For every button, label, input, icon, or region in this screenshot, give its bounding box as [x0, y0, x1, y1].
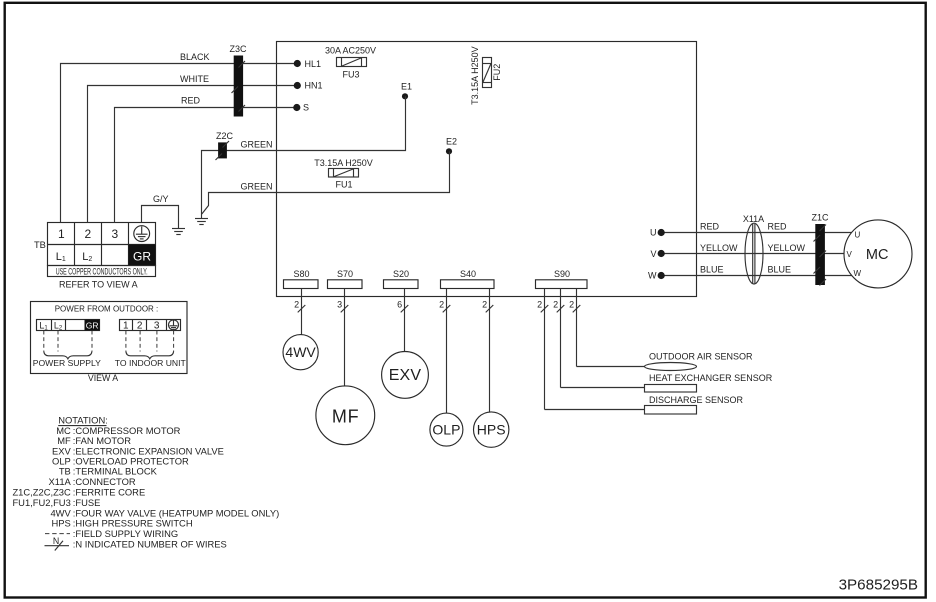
svg-text:Z1C,Z2C,Z3C: Z1C,Z2C,Z3C: [12, 486, 71, 497]
svg-text:6: 6: [397, 300, 402, 310]
svg-text:E1: E1: [401, 82, 412, 92]
svg-text::TERMINAL BLOCK: :TERMINAL BLOCK: [73, 466, 158, 477]
svg-text:2: 2: [439, 300, 444, 310]
svg-text:V: V: [650, 249, 656, 259]
svg-text:2: 2: [137, 321, 143, 332]
svg-text:GR: GR: [86, 320, 99, 330]
svg-text:S20: S20: [393, 269, 409, 279]
svg-text:2: 2: [84, 227, 91, 241]
svg-text:OLP: OLP: [432, 421, 460, 437]
svg-text:POWER SUPPLY: POWER SUPPLY: [33, 358, 101, 368]
svg-text:USE COPPER CONDUCTORS ONLY.: USE COPPER CONDUCTORS ONLY.: [56, 267, 148, 277]
svg-text:WHITE: WHITE: [180, 74, 209, 84]
svg-text:3: 3: [111, 227, 118, 241]
svg-text:MC: MC: [866, 247, 889, 263]
svg-text:3: 3: [154, 321, 160, 332]
svg-text:TB: TB: [34, 240, 46, 250]
svg-text:T3.15A H250V: T3.15A H250V: [470, 46, 480, 105]
svg-text:RED: RED: [768, 222, 788, 232]
svg-text:3: 3: [337, 300, 342, 310]
svg-text:2: 2: [482, 300, 487, 310]
svg-text:W: W: [648, 271, 657, 281]
svg-text:YELLOW: YELLOW: [700, 243, 738, 253]
svg-text:Z2C: Z2C: [216, 131, 234, 141]
svg-text:REFER TO VIEW A: REFER TO VIEW A: [59, 280, 138, 290]
svg-text:BLUE: BLUE: [768, 265, 792, 275]
svg-text:FU2: FU2: [492, 64, 502, 81]
svg-text:3P685295B: 3P685295B: [839, 577, 918, 594]
svg-text:G/Y: G/Y: [153, 194, 169, 204]
svg-text:GREEN: GREEN: [241, 139, 273, 149]
svg-text::FAN MOTOR: :FAN MOTOR: [73, 435, 131, 446]
svg-text:Z3C: Z3C: [229, 44, 247, 54]
svg-text:U: U: [855, 231, 861, 240]
svg-text:30A AC250V: 30A AC250V: [325, 45, 376, 55]
svg-text:MF: MF: [332, 406, 360, 426]
svg-text:S40: S40: [460, 269, 476, 279]
svg-text:POWER FROM OUTDOOR :: POWER FROM OUTDOOR :: [55, 304, 159, 313]
svg-text:HPS: HPS: [477, 421, 506, 437]
svg-text::N INDICATED NUMBER OF WIRES: :N INDICATED NUMBER OF WIRES: [73, 539, 227, 550]
svg-text:EXV: EXV: [389, 367, 422, 384]
svg-text:TO INDOOR UNIT: TO INDOOR UNIT: [115, 358, 187, 368]
svg-text:S70: S70: [337, 269, 353, 279]
svg-text:RED: RED: [181, 96, 201, 106]
svg-text:1: 1: [123, 321, 129, 332]
svg-text:S: S: [303, 102, 309, 112]
svg-text:HN1: HN1: [305, 81, 323, 91]
svg-text:N: N: [53, 536, 59, 546]
svg-text:U: U: [650, 228, 657, 238]
svg-text:HEAT EXCHANGER SENSOR: HEAT EXCHANGER SENSOR: [649, 373, 773, 383]
svg-text:VIEW A: VIEW A: [88, 373, 118, 383]
svg-text:2: 2: [537, 300, 542, 310]
svg-text:S80: S80: [293, 269, 309, 279]
svg-text:Z1C: Z1C: [811, 212, 829, 222]
svg-text::FIELD SUPPLY WIRING: :FIELD SUPPLY WIRING: [73, 528, 178, 539]
svg-text:OUTDOOR AIR SENSOR: OUTDOOR AIR SENSOR: [649, 351, 753, 361]
svg-text:TB: TB: [59, 466, 71, 477]
svg-text:S90: S90: [554, 269, 570, 279]
svg-text:T3.15A H250V: T3.15A H250V: [314, 158, 373, 168]
svg-text:4WV: 4WV: [285, 344, 316, 360]
svg-text:E2: E2: [446, 136, 457, 146]
svg-text:2: 2: [553, 300, 558, 310]
svg-text:BLACK: BLACK: [180, 52, 210, 62]
svg-text:RED: RED: [700, 222, 720, 232]
svg-text::FERRITE CORE: :FERRITE CORE: [73, 486, 145, 497]
svg-text:W: W: [854, 269, 862, 278]
svg-text:1: 1: [58, 227, 65, 241]
svg-text:GR: GR: [133, 249, 151, 263]
svg-text:MF: MF: [57, 435, 71, 446]
svg-text:2: 2: [294, 300, 299, 310]
svg-text:BLUE: BLUE: [700, 265, 724, 275]
svg-text:FU1: FU1: [335, 180, 352, 190]
svg-text:X11A: X11A: [743, 214, 764, 224]
svg-text:YELLOW: YELLOW: [768, 243, 806, 253]
svg-text:HPS: HPS: [52, 518, 71, 529]
svg-text:V: V: [847, 250, 853, 259]
svg-text:HL1: HL1: [305, 59, 322, 69]
svg-text:FU3: FU3: [342, 69, 359, 79]
svg-text:GREEN: GREEN: [241, 181, 273, 191]
svg-text:DISCHARGE SENSOR: DISCHARGE SENSOR: [649, 395, 744, 405]
svg-text:2: 2: [569, 300, 574, 310]
